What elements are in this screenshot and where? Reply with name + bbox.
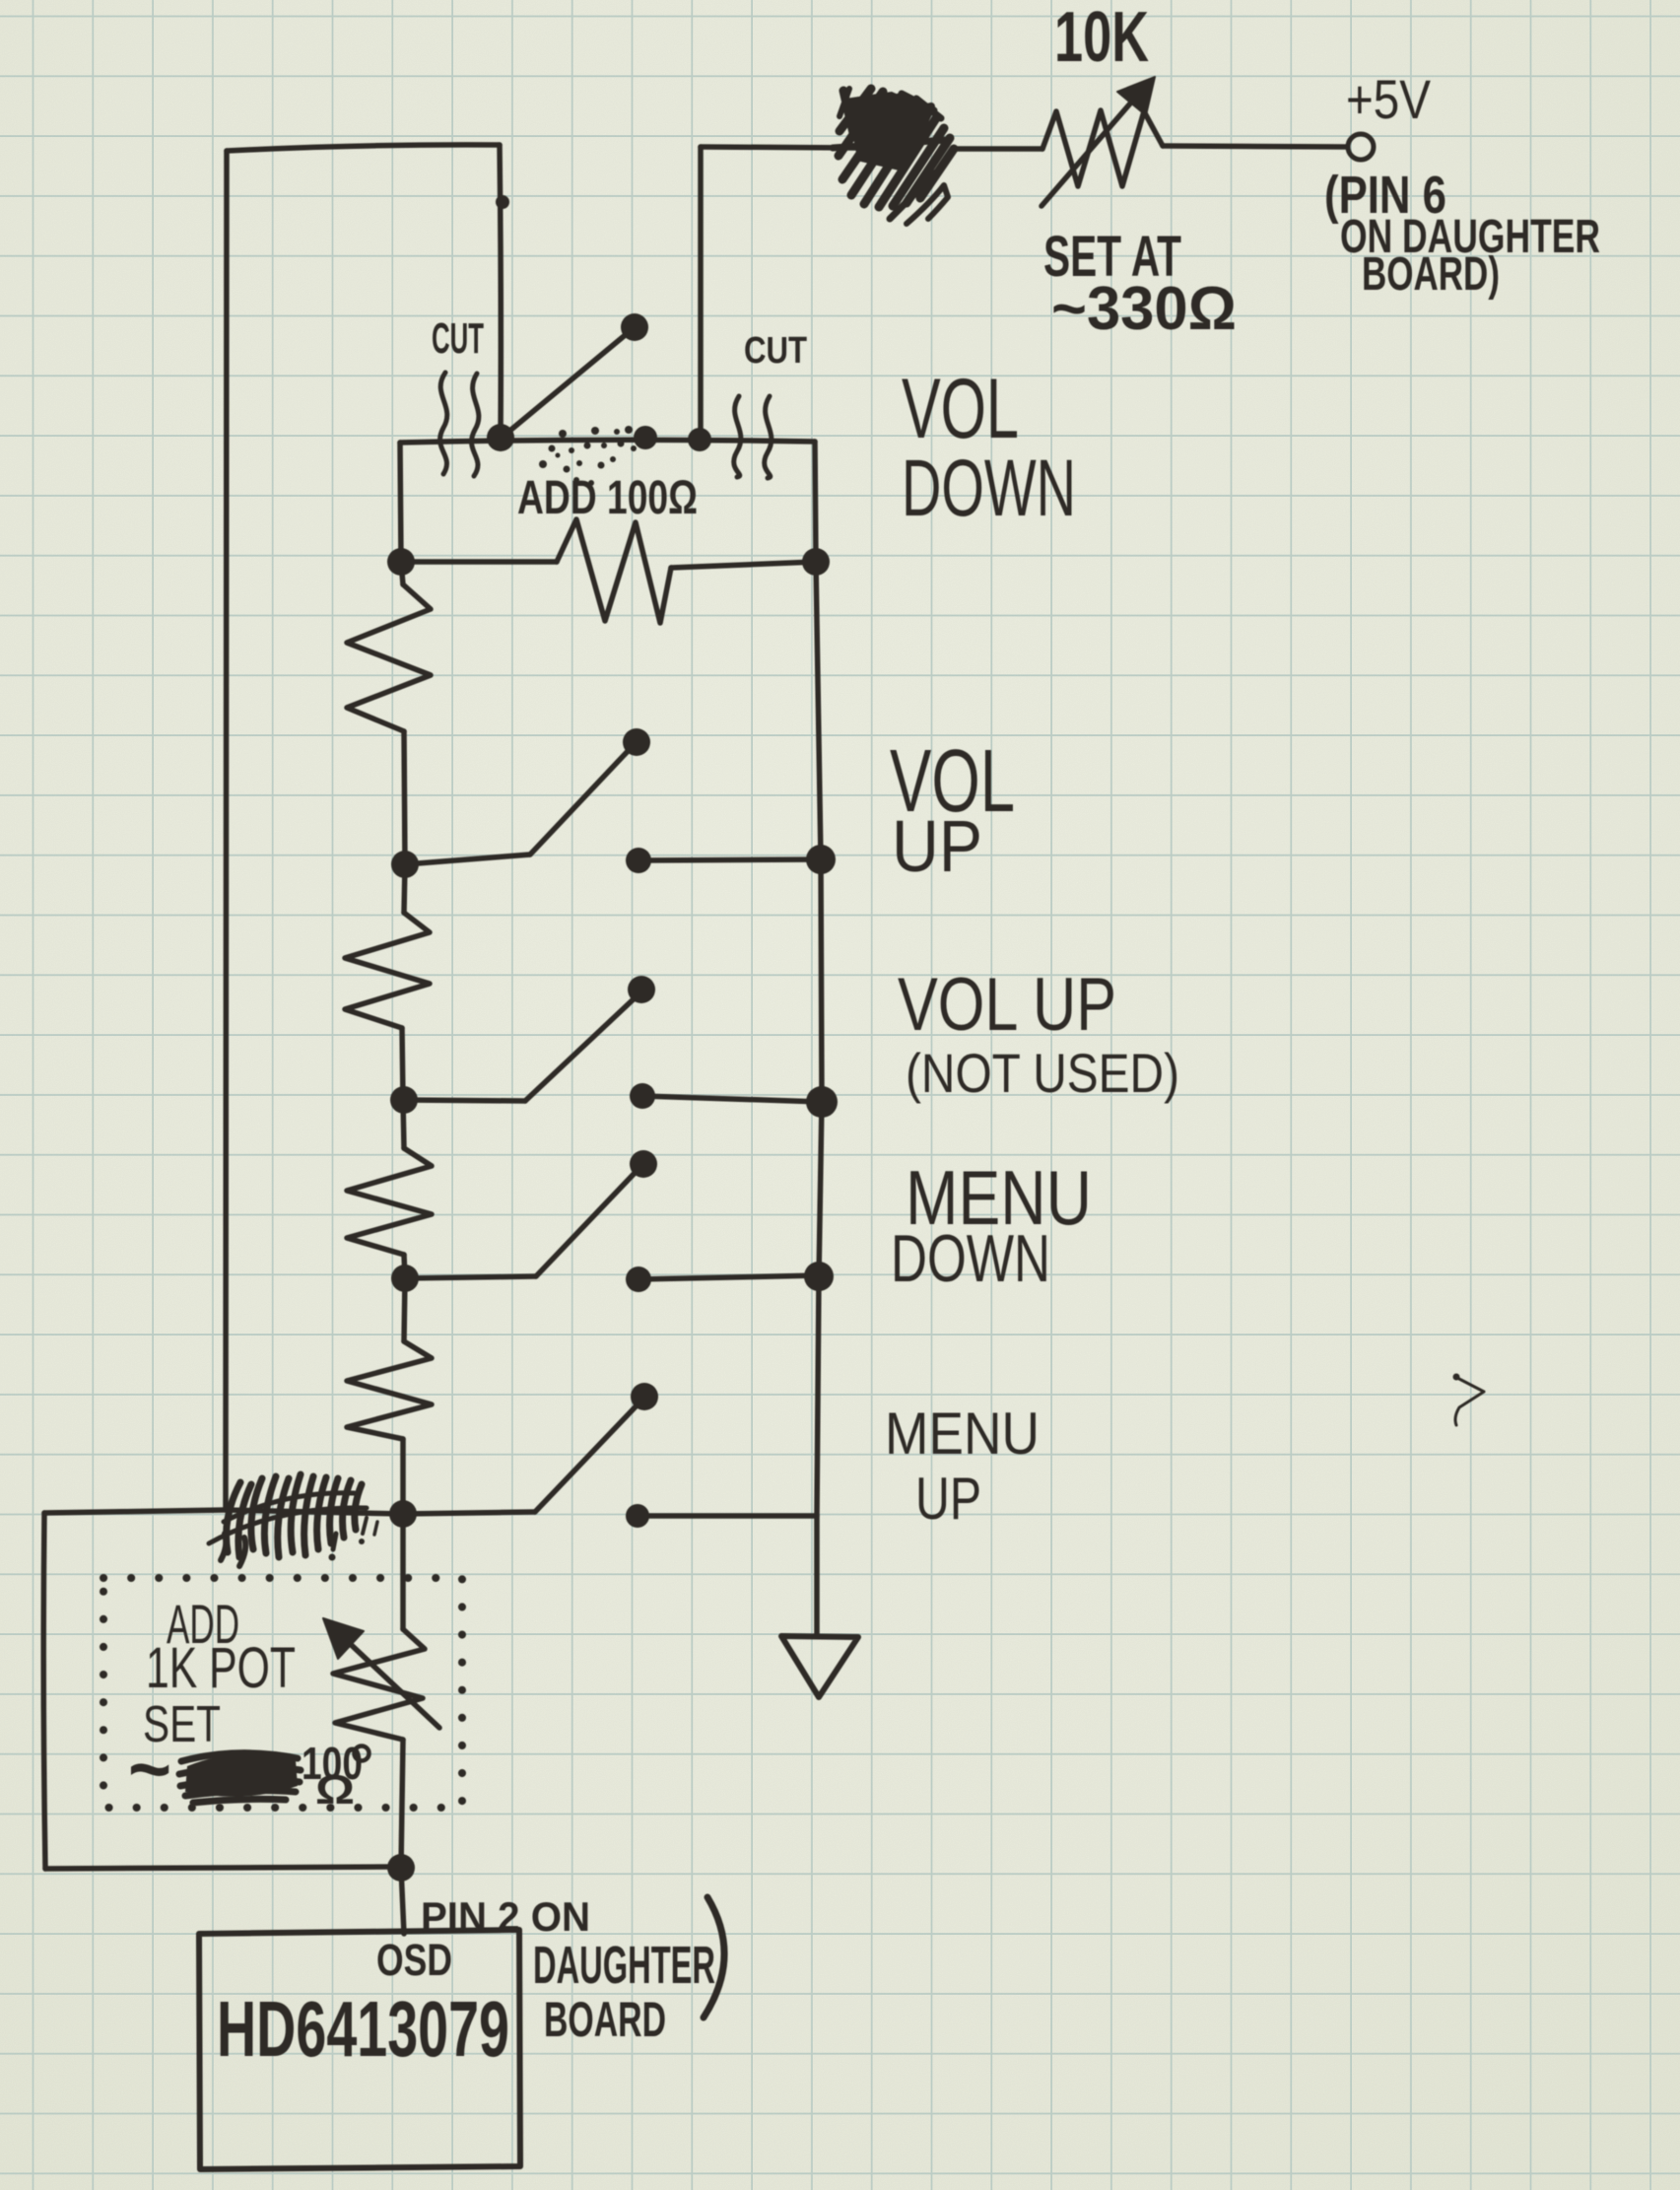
switch MENU DOWN blade dot	[630, 1150, 657, 1178]
wire top edge of left loop	[227, 145, 500, 151]
junction dot lower rail right	[802, 548, 830, 576]
bus dot VOL UP NU	[806, 1086, 838, 1118]
MENU DOWN contact dot	[626, 1266, 651, 1292]
VOL UP row: wire to hinge	[405, 855, 530, 864]
MENU UP contact dot	[626, 1504, 649, 1528]
potentiometer 10K arrowhead	[1117, 77, 1155, 115]
wire top edge toward scribble	[701, 147, 855, 148]
MENU DOWN node dot	[391, 1265, 419, 1292]
wire R2 to next node	[402, 1028, 403, 1100]
bus dot VOL UP	[806, 845, 836, 874]
hatch scribble over MENU UP wire	[209, 1474, 377, 1566]
wire below MENU DOWN node	[404, 1278, 405, 1341]
switch VOL UP blade dot	[623, 728, 650, 756]
resistor R4 zigzag	[347, 1341, 432, 1439]
VOL UP node dot	[391, 851, 419, 878]
big closing paren after DAUGHTER	[704, 1897, 724, 2018]
svg-text:DAUGHTER: DAUGHTER	[533, 1936, 715, 1995]
wire below VOL UP NU node	[403, 1100, 404, 1148]
junction dot lower rail left	[387, 548, 415, 576]
+5V terminal circle	[1348, 134, 1374, 160]
cut squiggle right a	[734, 396, 741, 477]
svg-text:BOARD): BOARD)	[1362, 248, 1500, 301]
switch VOL UP blade	[530, 747, 632, 855]
wire from pot to +5V terminal	[1163, 146, 1347, 147]
cut squiggle left a	[440, 373, 447, 474]
potentiometer 10K arrow shaft	[1042, 89, 1143, 206]
lower rail left segment	[401, 559, 557, 565]
scribbled-out value	[185, 1753, 298, 1797]
switch VOL UP NU blade	[525, 994, 638, 1101]
switch MENU UP blade dot	[631, 1383, 658, 1410]
VOL UP (NOT USED) node dot	[390, 1086, 418, 1114]
cut squiggle left b	[472, 374, 479, 476]
VOL DOWN rail	[400, 440, 815, 443]
potentiometer 10K zigzag	[1042, 110, 1163, 186]
svg-text:HD6413079: HD6413079	[217, 1985, 509, 2073]
bottom node dot	[387, 1854, 415, 1882]
left chain: wire below lower rail	[401, 562, 403, 584]
svg-text:DOWN: DOWN	[902, 444, 1076, 533]
MENU UP contact wire to bus	[638, 1513, 817, 1519]
svg-text:OSD: OSD	[376, 1935, 452, 1985]
switch MENU DOWN blade	[536, 1168, 639, 1276]
svg-text:VOL UP: VOL UP	[898, 963, 1116, 1047]
potentiometer 1K arrowhead	[323, 1618, 364, 1659]
junction dot hinge VOL DOWN	[487, 424, 514, 451]
wire R3 to MENU DOWN node	[404, 1255, 405, 1278]
VOL UP NU contact wire to bus	[642, 1096, 822, 1102]
row wire to hinge	[403, 1512, 535, 1514]
svg-text:1K POT: 1K POT	[146, 1636, 296, 1700]
row wire to hinge	[405, 1276, 536, 1278]
small stray mark right edge	[1455, 1378, 1484, 1425]
potentiometer 1K arrow shaft	[343, 1637, 439, 1728]
wire jog to lower-left box	[44, 1510, 226, 1513]
svg-text:VOL: VOL	[902, 362, 1019, 456]
svg-text:UP: UP	[892, 805, 982, 887]
wire third vertical up from VOL DOWN rail	[698, 147, 704, 440]
wire R1 to VOL UP node	[404, 731, 405, 864]
OSD box HD6413079	[199, 1930, 520, 2169]
dotted box ADD 1K POT	[103, 1578, 462, 1808]
switch VOL DOWN blade	[502, 332, 629, 438]
svg-text:BOARD: BOARD	[544, 1992, 666, 2047]
junction dot third vertical	[688, 428, 711, 451]
MENU UP row: wire from outer left (under scribble)	[226, 1510, 403, 1514]
node blob on second vertical	[496, 195, 509, 209]
svg-text:CUT: CUT	[432, 314, 484, 363]
wire lower-left box bottom	[45, 1867, 401, 1869]
bus vertical	[816, 562, 822, 1635]
resistor ADD 100 zigzag	[557, 519, 671, 623]
resistor R3 zigzag	[347, 1148, 432, 1255]
svg-text:~: ~	[128, 1725, 171, 1813]
potentiometer 1K zigzag	[333, 1629, 425, 1740]
MENU DOWN contact wire to bus	[638, 1275, 820, 1279]
switch VOL DOWN blade dot	[621, 313, 648, 341]
wire from scribble to 10K pot	[956, 146, 1042, 152]
svg-text:+5V: +5V	[1346, 68, 1432, 130]
switch MENU UP blade	[535, 1402, 640, 1512]
dotted spark pattern	[539, 426, 637, 486]
resistor R2 zigzag	[345, 913, 430, 1028]
wire lower-left box left vertical	[43, 1513, 45, 1869]
svg-text:MENU: MENU	[885, 1401, 1040, 1467]
wire left outer vertical	[226, 151, 228, 1510]
bus dot MENU DOWN	[804, 1262, 834, 1291]
svg-text:UP: UP	[915, 1466, 981, 1532]
resistor R1 zigzag	[347, 584, 431, 731]
svg-text:Ω: Ω	[315, 1766, 355, 1813]
VOL UP contact wire to bus	[638, 859, 821, 860]
corner down to lower rail (right)	[815, 442, 816, 561]
wire node to OSD box	[401, 1868, 404, 1934]
svg-text:10K: 10K	[1054, 0, 1149, 77]
wire MENU UP node down into dotted box	[400, 1514, 406, 1629]
ground symbol	[781, 1636, 858, 1697]
svg-text:PIN 2 ON: PIN 2 ON	[421, 1893, 590, 1940]
svg-text:CUT: CUT	[744, 330, 807, 372]
VOL UP contact dot	[626, 848, 651, 873]
svg-text:ADD 100Ω: ADD 100Ω	[517, 472, 698, 524]
wire second vertical from top edge down to VOL DOWN rail	[500, 145, 501, 439]
svg-text:~330Ω: ~330Ω	[1051, 275, 1237, 343]
lower rail right segment	[671, 562, 816, 568]
junction dot mid rail	[634, 426, 657, 449]
switch VOL UP NU blade dot	[628, 976, 655, 1003]
svg-text:(NOT USED): (NOT USED)	[906, 1042, 1179, 1104]
wire pot to bottom node	[401, 1740, 403, 1868]
cut squiggle right b	[765, 396, 772, 478]
wire R4 to MENU UP node	[400, 1439, 406, 1514]
MENU UP node dot	[389, 1500, 417, 1528]
superscript circle of 100	[355, 1746, 370, 1761]
wire below VOL UP node	[404, 864, 405, 913]
row wire to hinge	[404, 1100, 525, 1101]
VOL UP NU contact dot	[630, 1083, 655, 1109]
corner down to lower rail (left)	[400, 443, 401, 561]
svg-text:DOWN: DOWN	[891, 1221, 1050, 1296]
scribble blob over wire (top)	[833, 89, 954, 224]
